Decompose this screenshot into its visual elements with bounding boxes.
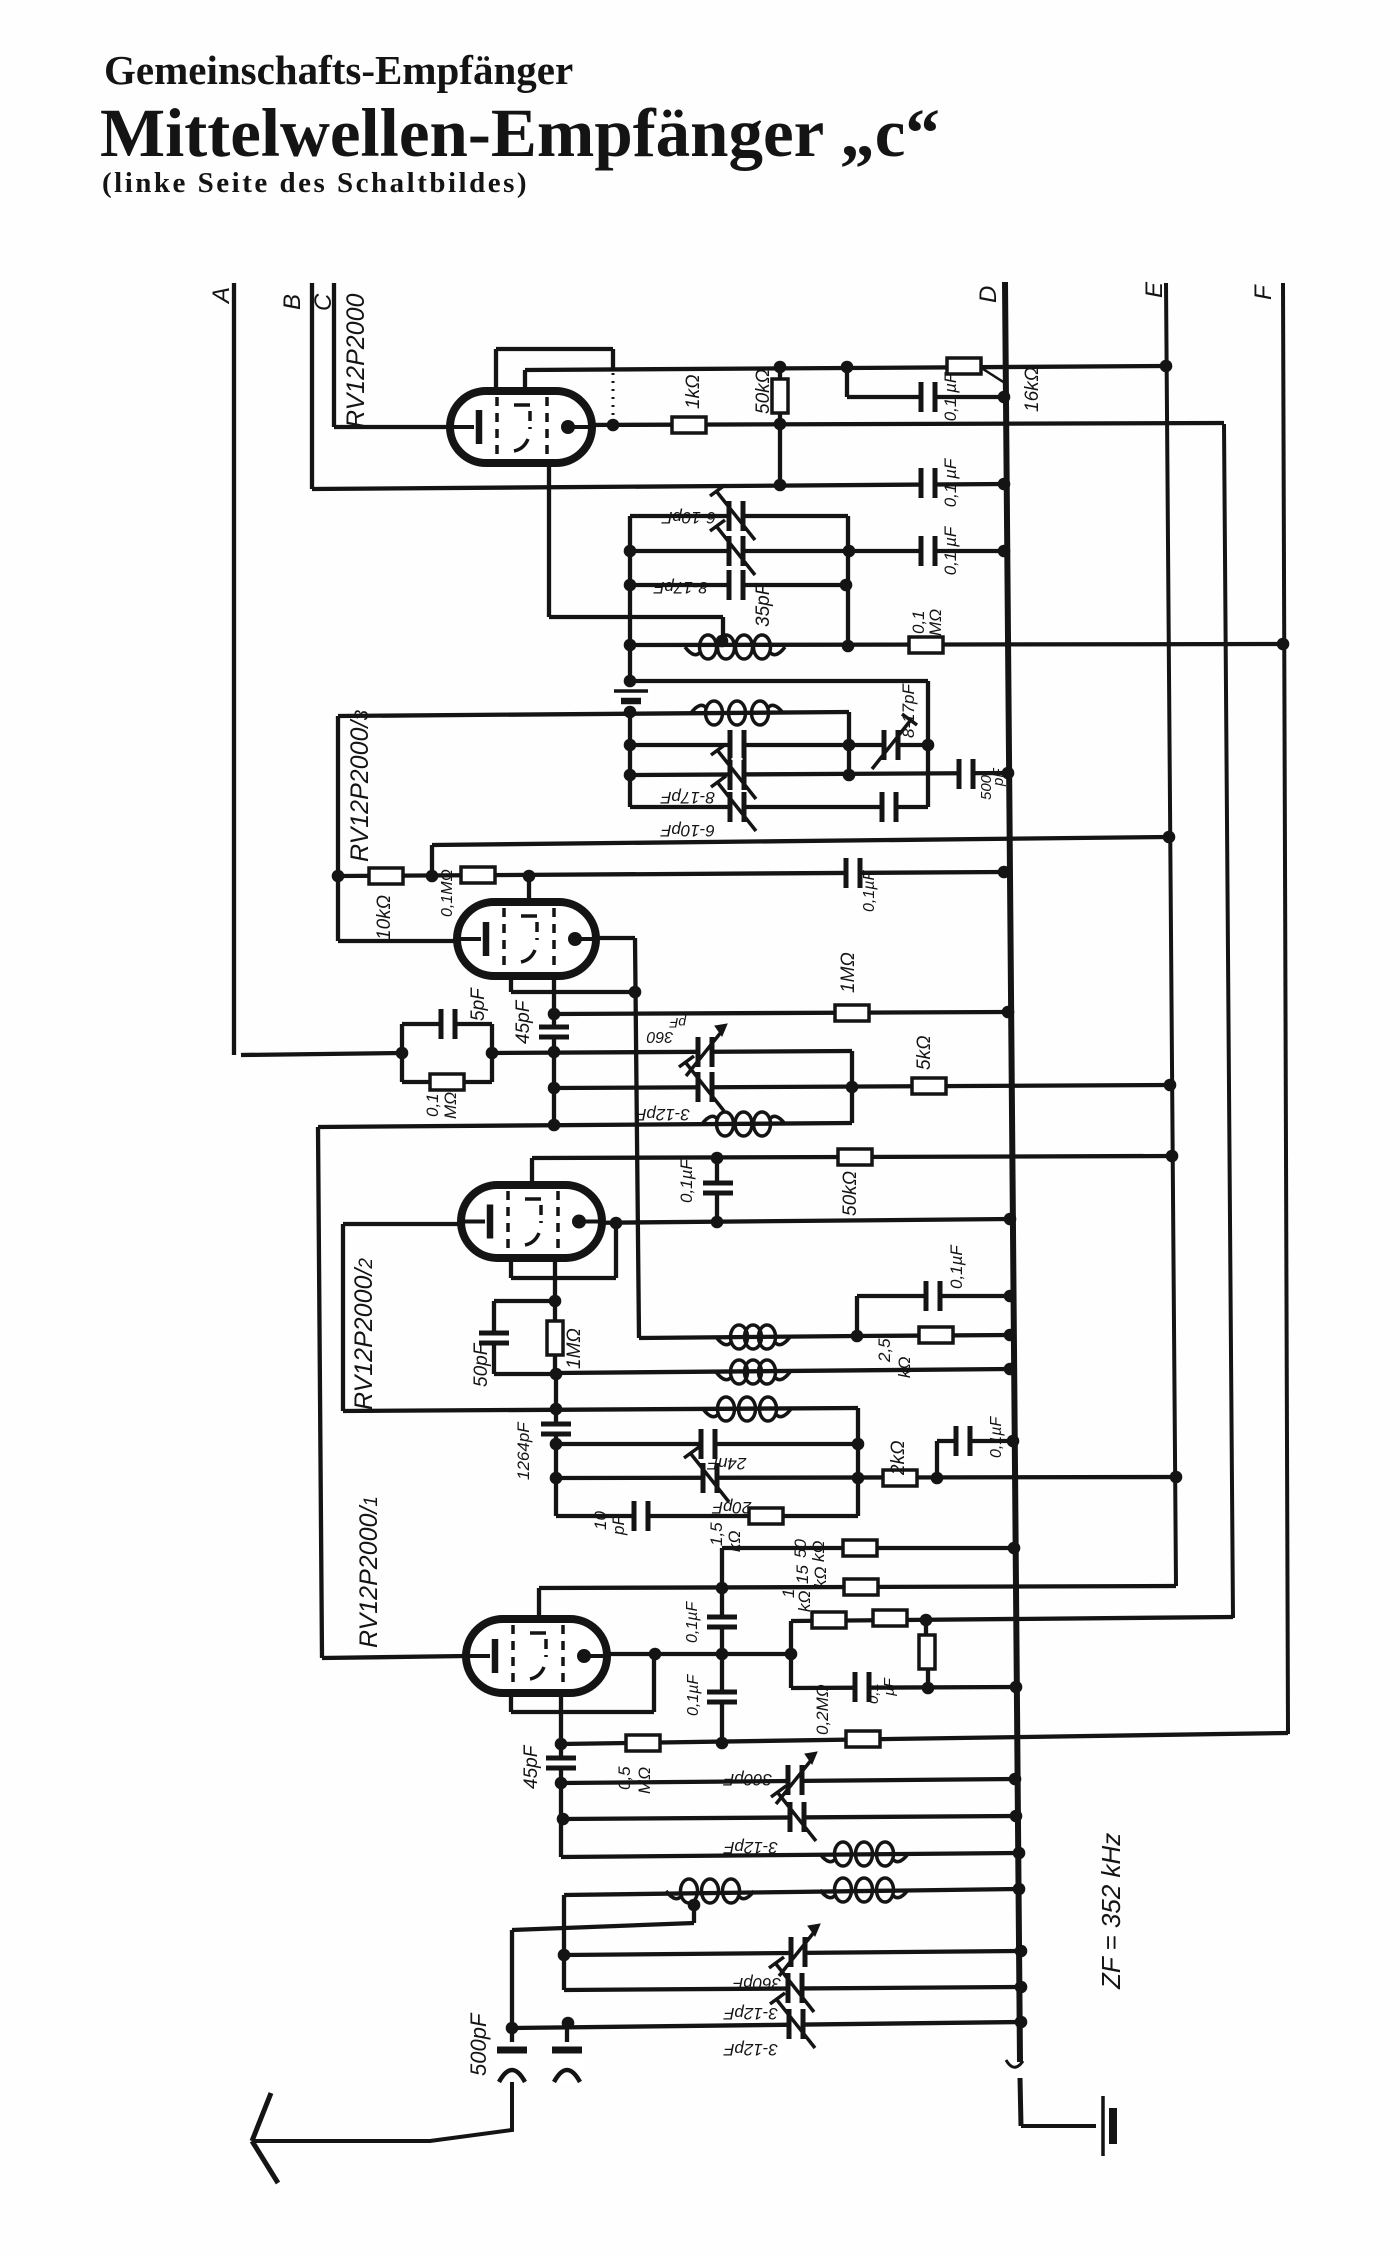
svg-text:3-12pF: 3-12pF bbox=[722, 1838, 777, 1857]
svg-text:B: B bbox=[279, 294, 306, 310]
svg-text:E: E bbox=[1141, 281, 1168, 298]
svg-text:µF: µF bbox=[881, 1677, 898, 1696]
svg-text:0,1 µF: 0,1 µF bbox=[941, 371, 960, 421]
svg-text:360pF: 360pF bbox=[731, 1974, 781, 1993]
svg-text:50kΩ: 50kΩ bbox=[840, 1171, 861, 1216]
svg-text:24nF: 24nF bbox=[706, 1454, 747, 1473]
svg-text:16kΩ: 16kΩ bbox=[1022, 367, 1043, 412]
svg-text:0,1µF: 0,1µF bbox=[861, 870, 878, 912]
svg-text:MΩ: MΩ bbox=[635, 1767, 654, 1794]
svg-text:20pF: 20pF bbox=[711, 1498, 752, 1517]
svg-text:RV12P2000/2: RV12P2000/2 bbox=[350, 1258, 378, 1410]
svg-text:RV12P2000: RV12P2000 bbox=[342, 294, 370, 428]
svg-text:8-17pF: 8-17pF bbox=[652, 578, 707, 597]
svg-text:3-12pF: 3-12pF bbox=[722, 2004, 777, 2023]
svg-text:C: C bbox=[310, 293, 337, 311]
svg-text:1kΩ: 1kΩ bbox=[683, 374, 704, 409]
svg-text:0,1 µF: 0,1 µF bbox=[941, 525, 960, 575]
svg-text:50: 50 bbox=[791, 1539, 810, 1558]
svg-text:45pF: 45pF bbox=[521, 1744, 542, 1789]
svg-text:3-12pF: 3-12pF bbox=[722, 2040, 777, 2059]
svg-text:pF: pF bbox=[609, 1514, 628, 1536]
svg-text:D: D bbox=[975, 286, 1002, 303]
svg-text:Mittelwellen-Empfänger „c“: Mittelwellen-Empfänger „c“ bbox=[100, 95, 940, 171]
svg-text:50kΩ: 50kΩ bbox=[753, 369, 774, 414]
svg-text:3-12pF: 3-12pF bbox=[634, 1105, 689, 1124]
svg-text:kΩ: kΩ bbox=[725, 1531, 744, 1553]
svg-text:500pF: 500pF bbox=[466, 2012, 491, 2076]
svg-text:1,5: 1,5 bbox=[707, 1522, 726, 1546]
svg-text:kΩ: kΩ bbox=[895, 1357, 914, 1379]
svg-text:6-10pF: 6-10pF bbox=[659, 821, 714, 840]
svg-text:5kΩ: 5kΩ bbox=[914, 1035, 935, 1070]
svg-text:ZF = 352 kHz: ZF = 352 kHz bbox=[1096, 1833, 1126, 1990]
svg-text:F: F bbox=[1250, 284, 1277, 300]
svg-text:kΩ: kΩ bbox=[795, 1591, 814, 1613]
svg-text:8-17pF: 8-17pF bbox=[899, 683, 918, 738]
svg-text:35pF: 35pF bbox=[753, 582, 774, 627]
svg-text:0,1µF: 0,1µF bbox=[677, 1158, 696, 1203]
svg-text:0,1µF: 0,1µF bbox=[684, 1601, 701, 1643]
svg-text:360: 360 bbox=[647, 1028, 674, 1045]
svg-text:kΩ: kΩ bbox=[811, 1567, 830, 1589]
svg-text:10kΩ: 10kΩ bbox=[374, 895, 395, 940]
svg-text:0,1µF: 0,1µF bbox=[988, 1416, 1005, 1458]
svg-text:10: 10 bbox=[591, 1511, 610, 1530]
svg-text:1MΩ: 1MΩ bbox=[564, 1328, 585, 1369]
svg-text:kΩ: kΩ bbox=[809, 1541, 828, 1563]
svg-text:1264pF: 1264pF bbox=[514, 1421, 533, 1480]
svg-text:0,5: 0,5 bbox=[615, 1766, 634, 1790]
svg-text:pF: pF bbox=[668, 1015, 687, 1031]
svg-text:50pF: 50pF bbox=[471, 1342, 492, 1387]
svg-text:0,1: 0,1 bbox=[865, 1683, 882, 1704]
svg-text:0,1: 0,1 bbox=[423, 1093, 442, 1117]
svg-text:Gemeinschafts-Empfänger: Gemeinschafts-Empfänger bbox=[104, 47, 573, 93]
svg-text:8-17pF: 8-17pF bbox=[659, 788, 714, 807]
svg-text:A: A bbox=[208, 287, 235, 305]
svg-text:MΩ: MΩ bbox=[441, 1092, 460, 1119]
svg-text:0,2MΩ: 0,2MΩ bbox=[813, 1684, 832, 1735]
svg-text:(linke Seite des Schaltbildes): (linke Seite des Schaltbildes) bbox=[102, 167, 529, 199]
svg-text:pF: pF bbox=[990, 768, 1007, 787]
svg-text:1MΩ: 1MΩ bbox=[838, 952, 859, 993]
svg-text:15: 15 bbox=[793, 1565, 812, 1584]
svg-text:360pF: 360pF bbox=[722, 1770, 772, 1789]
svg-text:MΩ: MΩ bbox=[926, 609, 945, 636]
svg-text:45pF: 45pF bbox=[513, 999, 534, 1044]
svg-text:0,1µF: 0,1µF bbox=[947, 1244, 966, 1289]
svg-text:0,1 µF: 0,1 µF bbox=[941, 457, 960, 507]
svg-text:RV12P2000/3: RV12P2000/3 bbox=[346, 710, 374, 862]
svg-text:0,1µF: 0,1µF bbox=[685, 1674, 702, 1716]
svg-text:5pF: 5pF bbox=[468, 987, 489, 1021]
svg-text:RV12P2000/1: RV12P2000/1 bbox=[355, 1496, 383, 1648]
svg-text:6-10pF: 6-10pF bbox=[660, 508, 715, 527]
svg-text:2kΩ: 2kΩ bbox=[888, 1440, 909, 1476]
svg-text:0,1MΩ: 0,1MΩ bbox=[439, 869, 456, 917]
svg-text:2,5: 2,5 bbox=[875, 1338, 894, 1363]
